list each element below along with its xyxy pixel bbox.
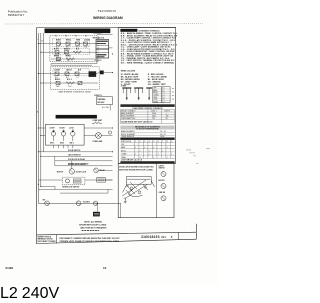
box A row1 contacts	[57, 42, 88, 45]
svg-text:12: 12	[103, 266, 107, 270]
svg-text:DOOR SWITCH: DOOR SWITCH	[68, 150, 81, 152]
thermal fuse component	[76, 201, 90, 206]
svg-text:DOOR LOCK: DOOR LOCK	[76, 172, 87, 174]
svg-text:120: 120	[152, 118, 155, 120]
main frame left border	[36, 28, 38, 244]
wire block T2 to bus	[109, 47, 113, 49]
latch box divider	[156, 163, 158, 217]
svg-text:BAKE ELEMENT 2700W BROIL 3000: BAKE ELEMENT 2700W BROIL 3000W	[59, 91, 91, 94]
wires left of box A	[38, 43, 51, 45]
legend panel border	[118, 28, 176, 164]
small comp box right	[97, 178, 113, 183]
svg-text:CONT 2: CONT 2	[65, 55, 71, 57]
svg-text:OVEN LAMP: OVEN LAMP	[92, 140, 103, 143]
svg-text:BROIL: BROIL	[55, 79, 60, 81]
svg-text:CLEAN: CLEAN	[54, 68, 61, 71]
wire colors two-column list	[121, 73, 168, 86]
wire row 3 vertical	[54, 156, 56, 161]
box B row2 labels	[55, 79, 72, 81]
svg-text:P2: P2	[65, 36, 67, 38]
svg-text:GN - GREEN / VERT: GN - GREEN / VERT	[148, 84, 167, 86]
svg-text:TIME: TIME	[153, 97, 157, 99]
svg-text:AT ROOM TEMPERATURE: AT ROOM TEMPERATURE	[136, 127, 159, 130]
svg-text:40: 40	[166, 118, 168, 120]
switch 3	[69, 127, 75, 144]
dashed box A: bake element control	[50, 36, 98, 62]
svg-text:1: 1	[135, 141, 136, 143]
svg-text:LOCK: LOCK	[153, 99, 157, 101]
latch right column items	[159, 165, 167, 201]
box B row sub-labels	[55, 77, 79, 88]
box A row sub-labels	[55, 46, 88, 62]
svg-text:SW 2: SW 2	[60, 143, 64, 145]
ground terminal block (black)	[93, 212, 100, 217]
horizontal wire row 3	[55, 160, 113, 162]
svg-text:OPERATE UNTIL FRAME OF RANGE I: OPERATE UNTIL FRAME OF RANGE IS GROUNDED…	[60, 240, 120, 243]
latch mechanism sketch	[122, 177, 154, 204]
table A header bar	[120, 104, 174, 107]
long bottom wire	[38, 202, 120, 204]
svg-text:▪ DOOR LATCH SHOWN IN UNLOCKED: ▪ DOOR LATCH SHOWN IN UNLOCKED POS.	[118, 165, 154, 168]
box A row3 contacts	[57, 57, 75, 60]
wire drop from bus	[37, 202, 39, 204]
svg-text:SW 1: SW 1	[50, 143, 54, 145]
wires around box C	[38, 179, 62, 181]
svg-text:2-4: 2-4	[162, 97, 164, 99]
svg-text:DISCONNECT CURRENT BEFORE SERV: DISCONNECT CURRENT BEFORE SERVICING THIS…	[60, 238, 121, 240]
box B row1 labels	[54, 68, 82, 71]
wire below thermal box	[109, 105, 111, 111]
box B dark component	[89, 71, 97, 77]
horizontal wire row 2	[41, 155, 113, 157]
drop stems below control box	[54, 145, 73, 148]
switch 2	[60, 127, 66, 144]
svg-text:1-3: 1-3	[162, 92, 164, 94]
svg-text:▪ SWITCHES SHOWN WITH DOOR CLO: ▪ SWITCHES SHOWN WITH DOOR CLOSED	[118, 169, 154, 171]
top right wire stub	[97, 34, 113, 36]
svg-text:6: 6	[158, 141, 159, 143]
footer strip bottom rule	[37, 239, 197, 243]
svg-text:BROIL: BROIL	[66, 40, 71, 42]
svg-text:B.E. 2: B.E. 2	[67, 79, 72, 81]
note text block	[79, 221, 107, 231]
svg-text:2-3: 2-3	[162, 101, 164, 103]
title bar: bake/broil element circuit	[45, 29, 111, 34]
svg-text:7: 7	[162, 141, 163, 143]
svg-text:DOOR LATCH SOLENOID: DOOR LATCH SOLENOID	[68, 162, 89, 165]
box A row3 labels	[54, 56, 72, 58]
svg-text:MOTOR: MOTOR	[159, 180, 166, 182]
svg-text:P4: P4	[85, 36, 87, 38]
door unlock switch	[43, 200, 50, 206]
svg-text:0-0: 0-0	[162, 88, 164, 90]
svg-text:5: 5	[153, 141, 154, 143]
svg-text:TERM. BLOCK: TERM. BLOCK	[93, 38, 105, 40]
box B row1 contacts	[55, 72, 79, 75]
svg-text:LATCH SWITCH: LATCH SWITCH	[68, 154, 81, 157]
svg-text:BROIL: BROIL	[121, 150, 126, 152]
box A row2 labels	[54, 47, 80, 50]
terminal block T1 (black)	[96, 39, 109, 49]
svg-text:BROIL: BROIL	[153, 92, 158, 94]
svg-text:8: 8	[167, 141, 168, 143]
svg-text:01/99: 01/99	[6, 266, 14, 270]
table B rows	[121, 130, 166, 138]
svg-text:SCHEMATIC SYMBOLS: SCHEMATIC SYMBOLS	[139, 29, 161, 32]
thermostat symbol 1	[122, 88, 131, 100]
svg-text:B.R.: B.R.	[78, 69, 82, 71]
right tick marks	[172, 89, 174, 100]
svg-text:TO RECEPT: TO RECEPT	[93, 33, 102, 35]
thermal switch box top right	[97, 97, 113, 105]
svg-text:SWITCH: SWITCH	[159, 168, 166, 170]
box A row1 wire	[51, 43, 97, 45]
svg-text:B.E.: B.E.	[76, 48, 80, 50]
control switch box	[45, 124, 84, 145]
svg-text:3-4: 3-4	[162, 99, 164, 101]
svg-text:SW 240V: SW 240V	[97, 101, 105, 104]
header dotted rule	[5, 22, 203, 25]
svg-text:2: 2	[140, 141, 141, 143]
latch mechanism box	[118, 163, 174, 217]
footer left box text	[38, 235, 57, 242]
svg-text:TEF098915: TEF098915	[98, 9, 117, 13]
main frame top border	[37, 27, 176, 29]
thermostat symbol 2	[134, 88, 143, 100]
switch triangle heads	[52, 131, 74, 133]
svg-text:5995327117: 5995327117	[8, 13, 25, 17]
svg-text:LEGEND: LEGEND	[125, 30, 134, 32]
svg-text:NOTE: ALL WIRING: NOTE: ALL WIRING	[84, 221, 102, 224]
page background	[0, 0, 218, 285]
table C header bar	[120, 138, 174, 141]
svg-text:OVEN LAMP 120V: OVEN LAMP 120V	[121, 117, 136, 120]
svg-text:REV.: REV.	[161, 236, 167, 239]
svg-text:SHOWN WITH DOOR CLOSED: SHOWN WITH DOOR CLOSED	[79, 225, 107, 227]
svg-text:P3: P3	[75, 36, 77, 38]
header publication number	[8, 10, 28, 17]
svg-text:L1: L1	[37, 39, 39, 41]
table A cells	[121, 110, 170, 121]
svg-text:DISCONNECT POWER: DISCONNECT POWER	[38, 241, 57, 243]
svg-text:OFF: OFF	[153, 88, 156, 90]
svg-text:HI-LIMIT: HI-LIMIT	[83, 202, 91, 204]
terminal block T2 (black striped)	[96, 49, 109, 58]
svg-text:1-4: 1-4	[162, 95, 164, 97]
svg-text:OVEN: OVEN	[121, 86, 127, 88]
svg-text:OVEN T.S.: OVEN T.S.	[94, 95, 103, 97]
oven lamp	[92, 133, 103, 143]
svg-text:5: 5	[37, 112, 38, 114]
svg-text:W.T. - WIRE TERMINAL / QUIC: W.T. - WIRE TERMINAL / QUICK CONNECT TER…	[121, 61, 175, 64]
svg-text:AND OVEN NOT OPERATING: AND OVEN NOT OPERATING	[80, 227, 107, 230]
bottom wire drop to legend box	[120, 203, 122, 217]
svg-text:SURFACE ELEMENT CIRCUIT / CIRC: SURFACE ELEMENT CIRCUIT / CIRCUIT ELEMEN…	[46, 30, 109, 33]
svg-text:OVEN LIGHT & LOCK CIRCUIT: OVEN LIGHT & LOCK CIRCUIT	[57, 117, 96, 119]
svg-text:CLEAN: CLEAN	[84, 39, 91, 42]
footer center text	[60, 238, 121, 243]
svg-text:INTERLOCK SWITCH: INTERLOCK SWITCH	[62, 187, 80, 189]
svg-text:4: 4	[149, 141, 150, 143]
latch header bar	[120, 161, 174, 164]
svg-text:THERMAL: THERMAL	[97, 98, 105, 101]
small comp on bus	[108, 131, 111, 134]
box B row1 wire	[51, 73, 98, 75]
svg-text:3: 3	[144, 141, 145, 143]
svg-text:SWITCH POS: SWITCH POS	[121, 141, 131, 143]
table C grid	[120, 140, 174, 158]
svg-text:1-2: 1-2	[162, 90, 164, 92]
table C column header row	[121, 141, 172, 143]
box B row2 wire	[51, 82, 98, 84]
wires box B	[38, 73, 51, 75]
svg-text:LOCK: LOCK	[69, 127, 75, 129]
relay contact right mid	[94, 168, 113, 173]
svg-text:316048453: 316048453	[141, 235, 160, 239]
horizontal wire row 1	[38, 151, 112, 153]
dashed box C: latch assembly	[62, 177, 85, 184]
table A grid	[120, 110, 174, 124]
box B row2 contacts	[56, 81, 82, 84]
wires right of box A to terminal block	[97, 38, 99, 40]
drop to ground block	[96, 203, 98, 211]
small black box right of B	[100, 71, 104, 75]
latch motor circle	[57, 161, 89, 174]
faint scan marks right margin	[186, 148, 210, 164]
wires between box A and B	[51, 63, 97, 65]
box A row2 wire	[51, 51, 97, 53]
junction dots	[38, 43, 113, 204]
mini table 1	[153, 87, 162, 104]
svg-text:1-2: 1-2	[77, 77, 79, 79]
thermostat symbol 3	[146, 88, 152, 100]
svg-text:240V: 240V	[56, 86, 60, 88]
box A row3 wire	[51, 58, 97, 60]
L1 N bus wires	[37, 33, 39, 203]
svg-text:2-3: 2-3	[67, 60, 69, 62]
mini table 2	[162, 87, 170, 104]
svg-text:WIRING DIAGRAM: WIRING DIAGRAM	[93, 16, 123, 20]
main frame right lower border	[195, 224, 197, 239]
footer strip top rule	[37, 232, 197, 235]
vent switch zigzag	[92, 122, 102, 124]
legend header bar	[120, 29, 137, 33]
svg-text:CONT 1: CONT 1	[55, 55, 61, 57]
table C cells	[121, 144, 172, 159]
svg-text:WIRE COLORS: WIRE COLORS	[121, 71, 136, 73]
wires oven light circuit	[84, 127, 112, 129]
svg-text:B.E.R.: B.E.R.	[54, 48, 60, 50]
svg-text:OFF: OFF	[121, 144, 124, 146]
svg-text:240V: 240V	[56, 60, 60, 62]
svg-text:LOCK CIRCUIT 1-4 2-6 3-8: LOCK CIRCUIT 1-4 2-6 3-8	[121, 158, 142, 161]
svg-text:9: 9	[171, 141, 172, 143]
dashed box B: broil element control	[50, 67, 99, 90]
legend definition rows	[121, 32, 178, 64]
title bar 2: oven light circuit	[56, 115, 97, 119]
svg-text:DOOR: DOOR	[60, 127, 66, 129]
svg-text:GROUND: GROUND	[94, 60, 102, 62]
svg-text:MOTOR: MOTOR	[57, 172, 64, 174]
box A row2 contacts	[55, 51, 81, 54]
svg-text:OVEN VENT: OVEN VENT	[92, 120, 103, 122]
svg-text:SW 3: SW 3	[70, 143, 74, 145]
switch 1	[50, 127, 56, 144]
svg-text:CLEAN MODE SET 550°F LATCH: CLEAN MODE SET 550°F LATCH 120	[121, 121, 152, 124]
svg-text:LATCH: LATCH	[66, 68, 72, 71]
box A row1 labels	[56, 39, 91, 42]
footer left box divider	[56, 235, 58, 244]
svg-text:P1: P1	[55, 36, 57, 38]
table B header (2-line dense text)	[120, 125, 174, 130]
